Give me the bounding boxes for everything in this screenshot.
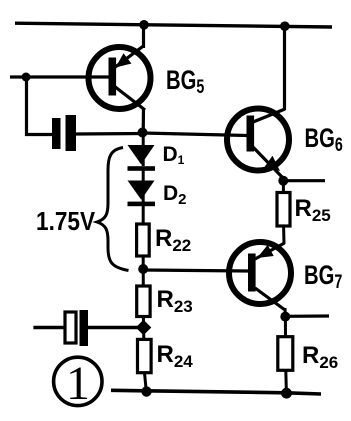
wire: R24 to bottom rail: [145, 373, 147, 392]
capacitor C1: [52, 115, 141, 151]
diode D1: [128, 133, 156, 171]
node: bottom-left junction: [141, 386, 151, 396]
node C junction: [136, 320, 152, 336]
wire: BG5 collector down to node A: [142, 108, 146, 133]
node A junction: [138, 128, 148, 138]
svg-text:1.75V: 1.75V: [36, 208, 96, 237]
resistor R22: [137, 224, 150, 256]
resistor R24: [138, 339, 152, 372]
node: BG5 base dot: [22, 73, 31, 82]
wire: emitter junction stub right: [283, 179, 325, 182]
svg-text:R26: R26: [302, 342, 338, 372]
wire: junction to R26: [284, 317, 287, 337]
svg-text:BG7: BG7: [304, 260, 342, 292]
svg-text:R24: R24: [157, 341, 194, 371]
svg-text:R22: R22: [155, 225, 191, 255]
svg-text:R25: R25: [295, 195, 331, 225]
node B junction: [138, 264, 148, 274]
diode D2: [128, 170, 156, 206]
wire: R22 to node B: [142, 256, 145, 269]
transistor BG6: [227, 26, 289, 178]
transistor BG5: [10, 46, 151, 111]
brace for 1.75V: [97, 148, 129, 271]
transistor BG7: [229, 242, 291, 317]
svg-text:BG5: BG5: [166, 65, 204, 97]
node: rail-BG5 junction: [139, 20, 149, 30]
wire: R23 to node C: [142, 317, 145, 329]
wire: base dot down: [27, 77, 53, 135]
node: rail-BG6 junction: [280, 21, 290, 31]
bottom rail: [111, 390, 321, 394]
wire: R26 to bottom rail: [284, 370, 288, 393]
svg-text:D1: D1: [163, 143, 185, 167]
resistor R23: [137, 286, 150, 317]
wire: node B to BG7 base: [143, 270, 248, 271]
resistor R25: [277, 193, 290, 227]
top supply rail: [15, 23, 332, 27]
resistor R26: [278, 337, 293, 371]
capacitor C2 (electrolytic): [33, 310, 143, 346]
wire: D2 to R22: [142, 206, 145, 224]
circled 1 marker: [54, 357, 102, 410]
wire: node C to R24: [142, 328, 145, 339]
svg-text:D2: D2: [163, 182, 187, 208]
wire: junction to R25: [282, 181, 285, 193]
node: BG7 collector junction: [280, 312, 290, 322]
node: bottom-right junction: [281, 388, 292, 399]
wire: node B to R23: [142, 269, 145, 286]
svg-text:1: 1: [66, 357, 90, 410]
wire: rail to BG5 emitter: [142, 25, 145, 49]
svg-text:BG6: BG6: [305, 123, 343, 155]
svg-text:R23: R23: [157, 286, 193, 316]
node: BG6 emitter junction: [278, 176, 288, 186]
wire: node A to BG6 base: [143, 133, 248, 136]
wire: junction stub right: [285, 314, 329, 317]
wire: R25 to BG7 emitter: [282, 226, 285, 244]
